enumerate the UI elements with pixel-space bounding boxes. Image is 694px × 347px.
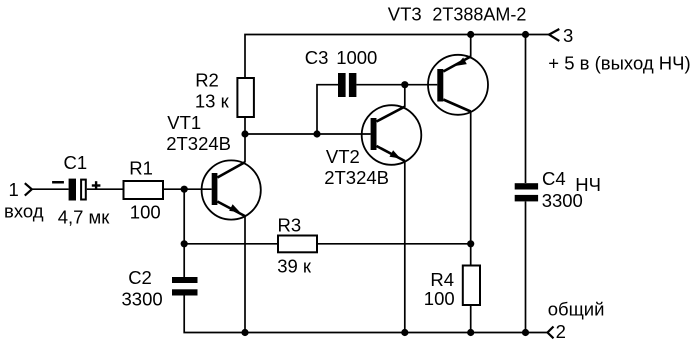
svg-text:2Т388АМ-2: 2Т388АМ-2 [432, 5, 526, 25]
wire node A vertical R1 junction down to C2 [183, 189, 185, 277]
wire input to C1 [32, 188, 68, 190]
node R4 top / VT3 collector [467, 240, 474, 247]
node C4 bottom / ground [522, 329, 529, 336]
svg-text:1: 1 [9, 179, 19, 200]
svg-text:2Т324В: 2Т324В [166, 133, 231, 154]
svg-text:общий: общий [548, 299, 605, 320]
transistor VT1 [202, 160, 261, 219]
svg-text:C3: C3 [305, 47, 329, 68]
wire top rail [245, 35, 549, 79]
svg-text:C1: C1 [64, 152, 88, 173]
node VT2 collector / VT3 base [401, 81, 408, 88]
svg-text:2: 2 [556, 321, 566, 342]
svg-text:R2: R2 [195, 69, 219, 90]
svg-text:R3: R3 [278, 214, 302, 235]
svg-text:4,7 мк: 4,7 мк [58, 207, 111, 228]
resistor R1 [124, 181, 164, 199]
wire C2 bottom to ground rail [184, 296, 547, 333]
svg-text:VT1: VT1 [167, 112, 201, 133]
wire VT3 collector vertical down to R4 [470, 111, 472, 266]
node R1/VT1 base [181, 186, 188, 193]
svg-text:R4: R4 [430, 269, 454, 290]
node dots [181, 31, 530, 336]
svg-text:3: 3 [563, 25, 573, 46]
node C3 left [313, 130, 320, 137]
wire VT1 collector to VT2 base [245, 133, 371, 135]
wire R4 bottom to ground rail [470, 305, 472, 333]
svg-text:100: 100 [424, 288, 455, 309]
svg-text:C4: C4 [542, 168, 566, 189]
svg-text:39 к: 39 к [277, 255, 312, 276]
node VT3 emitter / top rail [467, 31, 474, 38]
svg-text:1000: 1000 [336, 47, 377, 68]
wire C4 top lead [525, 35, 527, 184]
capacitor C3 [338, 73, 356, 97]
svg-text:C2: C2 [128, 267, 152, 288]
terminal 2 (common pin) [548, 327, 554, 339]
capacitor C2 [172, 277, 198, 296]
transistor VT2 [362, 105, 422, 165]
node VT2 emitter / ground [401, 329, 408, 336]
svg-text:3300: 3300 [122, 288, 163, 309]
wire VT1 collector vertical [244, 134, 246, 162]
svg-text:2Т324В: 2Т324В [324, 167, 389, 188]
terminal 1 (input pin) [25, 183, 32, 195]
transistor VT3 [428, 55, 488, 115]
wire VT1 emitter vertical down to ground rail [244, 216, 246, 333]
resistor R2 [237, 78, 254, 117]
svg-text:VT3: VT3 [388, 4, 422, 25]
svg-text:100: 100 [130, 201, 161, 222]
svg-text:VT2: VT2 [326, 146, 360, 167]
svg-text:вход: вход [4, 201, 44, 222]
svg-text:+ 5 в (выход НЧ): + 5 в (выход НЧ) [548, 52, 690, 73]
wire R1 to VT1 base [163, 188, 212, 190]
wire C3 left lead [317, 85, 338, 134]
node C4 top [522, 31, 529, 38]
svg-text:13 к: 13 к [195, 90, 230, 111]
wire VT3 emitter vertical up to top rail [470, 35, 472, 58]
wire R2 bottom to VT1 collector node [244, 117, 246, 134]
node R3 left [181, 240, 188, 247]
svg-text:3300: 3300 [542, 190, 583, 211]
node R4 bottom / ground [467, 329, 474, 336]
wire C4 bottom lead [525, 202, 527, 333]
wire R3 feedback horizontal [184, 243, 278, 245]
wire VT2 collector vertical [404, 85, 406, 107]
capacitor C1 [52, 179, 100, 201]
resistor R4 [463, 266, 480, 306]
capacitor C4 [515, 183, 538, 201]
node VT1 collector [241, 130, 248, 137]
svg-text:R1: R1 [129, 158, 153, 179]
terminal 3 (+5V pin) [549, 29, 559, 41]
wire C3 right lead to VT3 base [356, 84, 437, 86]
wire VT2 emitter vertical down to ground rail [404, 161, 406, 333]
node VT1 emitter / ground [241, 329, 248, 336]
resistor R3 [278, 236, 317, 253]
wire R3 right lead to R4 top node [317, 243, 471, 245]
wire C1 to R1 [87, 188, 124, 190]
